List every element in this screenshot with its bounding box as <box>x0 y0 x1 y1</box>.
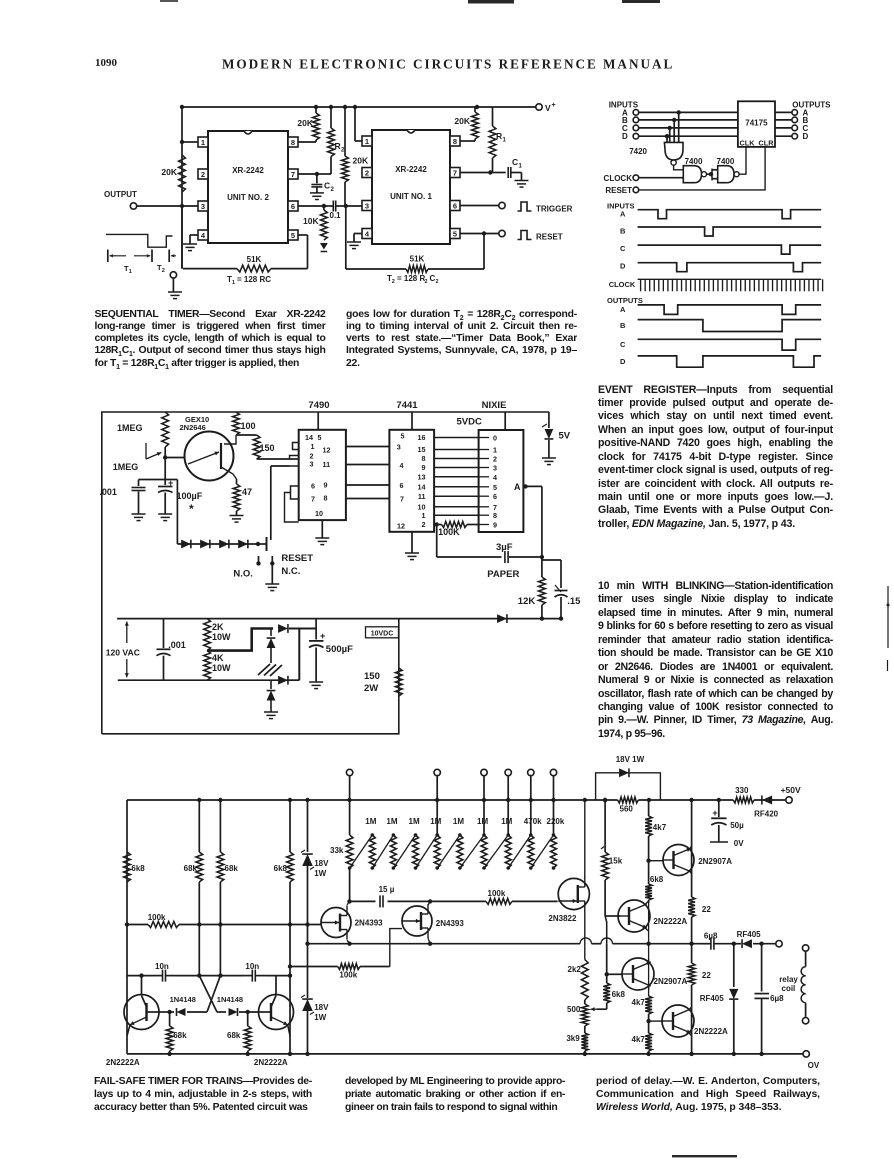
waveform output A <box>620 305 821 315</box>
svg-text:RESET: RESET <box>605 186 632 195</box>
terminal RESET <box>499 230 563 241</box>
svg-text:8: 8 <box>291 138 295 147</box>
terminal +50V <box>781 785 801 803</box>
svg-text:5: 5 <box>401 432 405 441</box>
potentiometer 500 <box>567 1000 607 1026</box>
waveform clock comb <box>638 279 823 291</box>
wire CLOCK to gate <box>639 177 684 179</box>
svg-text:.001: .001 <box>168 640 186 650</box>
border supply box right + bottom <box>102 619 399 734</box>
node selector rail dots <box>435 798 556 802</box>
wire nixie supply stub <box>504 412 506 430</box>
wire 10VDC output rail <box>117 618 561 620</box>
pin 3 U1 <box>346 201 372 211</box>
node 33k jfet drain <box>347 899 352 944</box>
resistor 6k8 b <box>274 800 294 882</box>
svg-text:3k9: 3k9 <box>566 1034 580 1043</box>
svg-text:1N4148: 1N4148 <box>217 995 243 1004</box>
svg-text:470k: 470k <box>524 817 542 826</box>
svg-text:A: A <box>620 305 626 314</box>
relay coil <box>779 945 809 1024</box>
resistor 6k8 a <box>124 852 146 882</box>
svg-text:C: C <box>324 181 330 191</box>
svg-text:1090: 1090 <box>95 57 118 69</box>
diode RF405 series <box>732 930 776 948</box>
svg-text:15: 15 <box>418 445 426 454</box>
svg-text:2N2907A: 2N2907A <box>698 857 732 866</box>
svg-text:.001: .001 <box>99 487 117 497</box>
terminal output B <box>792 116 809 125</box>
wire nixie anode A <box>523 484 542 557</box>
terminal input B <box>622 116 639 125</box>
svg-text:NIXIE: NIXIE <box>482 400 507 411</box>
label 120 VAC + arrows <box>106 622 140 678</box>
capacitor .001 line filter <box>157 619 186 681</box>
diode rectifier bottom <box>278 676 299 685</box>
svg-text:3: 3 <box>310 460 314 469</box>
wire 7441 supply stub <box>411 412 413 430</box>
label N.C. <box>281 566 300 577</box>
svg-text:CLOCK: CLOCK <box>604 174 633 183</box>
waveform input B <box>620 227 821 237</box>
hatch symbol <box>258 664 282 676</box>
svg-text:13: 13 <box>418 472 426 481</box>
counter U7 7490 body <box>299 430 346 520</box>
wire 7490 pin9 to 7441 pin6 <box>346 484 390 486</box>
svg-text:10: 10 <box>315 509 323 518</box>
svg-text:7420: 7420 <box>629 147 647 156</box>
pin 6 U2 <box>288 201 329 211</box>
waveform input D <box>620 262 821 272</box>
terminal V+ <box>536 102 556 113</box>
label 5VDC <box>457 417 482 428</box>
svg-text:+: + <box>712 808 717 818</box>
resistor 4k7 bottom <box>632 1021 652 1056</box>
zener 18V 1W upper <box>301 800 329 925</box>
svg-text:1: 1 <box>365 137 369 146</box>
svg-text:C: C <box>512 157 518 167</box>
logic gate U3 7420 four-input NAND <box>629 142 683 165</box>
op-amp U1 XR-2242 UNIT NO. 1 body <box>372 130 450 244</box>
svg-text:A: A <box>620 210 626 219</box>
wire input D line <box>639 135 738 137</box>
wire 100k gate line to 2N3822 <box>430 889 557 904</box>
svg-text:2N2907A: 2N2907A <box>654 977 688 986</box>
resistor chain 1M x7 470k 220k <box>348 800 557 870</box>
wire cross coupling diagonals <box>199 976 220 1012</box>
diode clamp upper <box>267 629 276 664</box>
wire input C line <box>639 127 738 129</box>
wire RESET to CLR <box>639 147 765 190</box>
svg-text:RF405: RF405 <box>737 930 762 939</box>
svg-text:20K: 20K <box>353 156 369 166</box>
svg-text:330: 330 <box>735 786 749 795</box>
svg-text:5: 5 <box>318 433 322 442</box>
svg-text:100K: 100K <box>438 527 460 537</box>
svg-text:68k: 68k <box>184 864 198 873</box>
svg-text:2N2222A: 2N2222A <box>254 1058 288 1067</box>
terminal input A <box>622 108 639 117</box>
wire right mid vertical <box>648 944 650 996</box>
svg-text:16: 16 <box>418 433 426 442</box>
svg-text:1: 1 <box>422 511 426 520</box>
resistor 100K anode <box>434 522 479 538</box>
svg-text:1M: 1M <box>409 817 420 826</box>
pin 7 U1 <box>450 168 490 178</box>
svg-text:XR-2242: XR-2242 <box>395 165 427 174</box>
svg-text:68k: 68k <box>227 1031 241 1040</box>
svg-text:1M: 1M <box>365 817 376 826</box>
svg-text:OUTPUTS: OUTPUTS <box>607 296 643 305</box>
terminal RESET (logic) <box>605 186 638 195</box>
svg-text:relay: relay <box>779 975 798 984</box>
svg-text:20K: 20K <box>297 118 313 128</box>
wire 15k to Q7 base <box>605 915 620 917</box>
wire to diode string <box>176 480 178 545</box>
svg-text:15k: 15k <box>609 857 623 866</box>
wire output D line <box>775 135 792 137</box>
wire 7490 ground stub <box>321 520 323 538</box>
node zener bus crossings <box>167 942 309 1057</box>
svg-text:3: 3 <box>493 464 497 473</box>
ground pin4 U1 <box>347 242 361 249</box>
resistor R1 <box>489 107 506 173</box>
svg-text:3: 3 <box>201 202 205 211</box>
resistor 2k2 <box>568 960 589 1001</box>
resistor 20K rail to pin8 U2 <box>297 107 319 142</box>
wire 7441 ground stub <box>411 532 413 553</box>
logic gate U4 7400 NAND a <box>683 157 706 183</box>
svg-text:0V: 0V <box>734 839 744 848</box>
node rail taps <box>197 798 352 802</box>
terminal input C <box>622 124 639 133</box>
waveform input A <box>620 210 821 219</box>
transistor Q2 2N2222A left <box>124 976 159 1036</box>
diode RF420 <box>754 795 779 818</box>
waveform output pulse sketch <box>106 234 173 247</box>
svg-text:5: 5 <box>291 231 295 240</box>
svg-text:6µ8: 6µ8 <box>770 994 784 1003</box>
diode string D1-D4 1N4001 <box>177 540 258 549</box>
svg-text:2k2: 2k2 <box>568 965 582 974</box>
wire 10n coupling bus <box>127 975 290 977</box>
wire 3uF branch <box>437 525 502 558</box>
svg-text:150: 150 <box>364 671 380 682</box>
svg-text:4k7: 4k7 <box>632 998 646 1007</box>
resistor 330 <box>733 786 754 803</box>
zener diode 5V <box>542 412 571 458</box>
page number 1090 <box>95 57 118 69</box>
svg-text:C: C <box>620 340 626 349</box>
wire 7490 pin12 to 7441 pin3 <box>346 446 390 448</box>
svg-text:2: 2 <box>392 279 395 285</box>
svg-text:V: V <box>545 103 551 113</box>
svg-text:1: 1 <box>201 138 205 147</box>
node taps to 7420 inputs <box>665 110 681 138</box>
label INPUTS (logic) <box>609 101 639 110</box>
terminal output A <box>792 108 809 117</box>
node 7400 interstage dot <box>709 172 713 176</box>
pin stubs 7490 left brackets <box>285 443 299 523</box>
wire cap top bus <box>139 479 178 481</box>
svg-text:PAPER: PAPER <box>487 569 519 580</box>
wire gate return bus2 <box>288 929 402 980</box>
wire 7420 input drops <box>667 112 679 142</box>
svg-text:22: 22 <box>702 905 711 914</box>
svg-text:2: 2 <box>331 187 335 193</box>
logic gate U5 7400 NAND b <box>717 157 740 183</box>
svg-text:150: 150 <box>260 443 275 453</box>
svg-text:18V: 18V <box>314 859 329 868</box>
resistor 1MEG charging <box>117 412 169 447</box>
svg-text:6: 6 <box>453 202 457 211</box>
node coupling bus dots <box>139 973 292 977</box>
svg-text:2N2646: 2N2646 <box>180 423 206 432</box>
resistor 51K U1 timing <box>346 206 484 272</box>
wire 150 to 7490 pin2 <box>257 458 290 460</box>
resistor 560 in rail <box>603 797 651 814</box>
wire output C line <box>775 127 792 129</box>
svg-text:CLK: CLK <box>740 138 756 147</box>
svg-text:2: 2 <box>436 279 439 285</box>
svg-text:5: 5 <box>453 230 457 239</box>
pin 6 U1 <box>450 201 499 211</box>
resistor 6k8 mid <box>603 916 625 1009</box>
resistor 20K rail to pin8 U1 <box>454 107 478 141</box>
svg-text:6: 6 <box>493 492 497 501</box>
label timing CLOCK <box>609 280 636 289</box>
svg-text:*: * <box>189 502 194 516</box>
diode 1N4148 a <box>159 995 207 1016</box>
capacitor 15u <box>379 885 395 907</box>
svg-text:22: 22 <box>702 971 711 980</box>
svg-text:0.1: 0.1 <box>330 211 342 220</box>
svg-text:12K: 12K <box>518 596 536 607</box>
wire Q9 vertical <box>689 798 693 897</box>
svg-text:1: 1 <box>519 164 523 170</box>
scan artifact right edge line <box>887 586 890 671</box>
svg-text:2W: 2W <box>364 683 378 694</box>
pin 3 U2 <box>137 201 208 211</box>
svg-text:15 µ: 15 µ <box>379 885 395 894</box>
svg-text:20K: 20K <box>454 116 470 126</box>
svg-text:RF420: RF420 <box>754 810 779 819</box>
diode rectifier top <box>278 624 316 633</box>
node pin7 C1 junction <box>488 170 492 174</box>
transistor Q7 2N2222A mid <box>618 900 687 944</box>
svg-text:1: 1 <box>232 280 235 286</box>
svg-text:8: 8 <box>493 511 497 520</box>
svg-text:120 VAC: 120 VAC <box>106 648 140 658</box>
capacitor .15 <box>542 560 581 619</box>
ground 500uF <box>309 682 323 689</box>
svg-text:7: 7 <box>400 495 404 504</box>
svg-text:2: 2 <box>422 520 426 529</box>
wire 7490 pin11 to 7441 pin4 <box>346 464 390 466</box>
svg-text:3: 3 <box>397 442 401 451</box>
node pin5 U1 junction <box>482 231 486 235</box>
resistor 10K <box>303 206 327 240</box>
transistor Q4 2N4393 a <box>321 906 383 940</box>
svg-text:MODERN ELECTRONIC CIRCUITS REF: MODERN ELECTRONIC CIRCUITS REFERENCE MAN… <box>222 57 674 72</box>
svg-text:7: 7 <box>291 170 295 179</box>
wire 7490 pin8 to 7441 pin7 <box>346 498 390 500</box>
svg-text:1W: 1W <box>314 1013 326 1022</box>
label T1 = 128 RC <box>227 275 271 286</box>
svg-text:RF405: RF405 <box>700 994 725 1003</box>
wire switch to 7490 pin3 <box>271 465 290 467</box>
svg-text:XR-2242: XR-2242 <box>232 166 264 175</box>
label 7441 IC <box>396 400 418 411</box>
svg-text:N.O.: N.O. <box>233 569 253 580</box>
label T2 <box>157 263 165 274</box>
page title MODERN ELECTRONIC CIRCUITS REFERENCE MANUAL <box>222 57 674 72</box>
svg-text:560: 560 <box>620 805 634 814</box>
svg-text:B: B <box>620 321 626 330</box>
svg-text:2: 2 <box>425 279 428 285</box>
svg-text:47: 47 <box>242 487 252 497</box>
svg-text:74175: 74175 <box>745 119 768 128</box>
terminal OUTPUT <box>104 190 137 209</box>
label timing INPUTS <box>607 202 635 211</box>
svg-text:51K: 51K <box>247 255 262 264</box>
svg-text:coil: coil <box>782 984 796 993</box>
pin 2 U2 <box>198 169 208 179</box>
node chain bottom 220k <box>552 866 556 870</box>
svg-text:8: 8 <box>453 137 457 146</box>
border nixie timer schematic box left/top <box>102 412 549 734</box>
resistor 12K <box>518 557 546 619</box>
nixie tube V1 body <box>479 430 524 532</box>
ground .001 <box>132 514 146 521</box>
capacitor .001 timing <box>99 480 145 515</box>
capacitor 0.1 coupling <box>329 201 346 221</box>
svg-text:68k: 68k <box>225 864 239 873</box>
svg-text:1: 1 <box>311 442 315 451</box>
node 12K cap bottom <box>540 616 564 620</box>
resistor 150 <box>253 435 274 459</box>
wire input B line <box>639 119 738 121</box>
svg-text:68k: 68k <box>173 1031 187 1040</box>
svg-text:6k8: 6k8 <box>131 864 145 873</box>
op-amp U2 XR-2242 UNIT NO. 2 body <box>208 131 288 243</box>
resistor 68k b <box>217 800 238 882</box>
svg-text:20K: 20K <box>161 167 177 177</box>
wire left vertical bus <box>181 107 183 269</box>
wire rect to cap node <box>299 629 316 681</box>
terminal output a <box>776 941 782 947</box>
transistor Q9 2N2907A upper <box>646 845 732 876</box>
svg-text:+: + <box>320 631 326 642</box>
wire pin5 U2 to 51K loop <box>307 235 309 269</box>
node pin1 junction unit2 <box>180 140 184 144</box>
svg-text:1: 1 <box>493 446 497 455</box>
svg-text:1MEG: 1MEG <box>117 423 143 433</box>
terminal 0V bottom <box>803 1051 820 1070</box>
switch RESET pushbutton <box>256 466 274 584</box>
wire UJT b2 to 100 <box>224 435 236 444</box>
zener 18V 1W lower <box>301 925 329 1054</box>
svg-text:4K: 4K <box>212 653 224 663</box>
register U6 74175 body <box>738 101 775 147</box>
svg-text:1M: 1M <box>477 817 488 826</box>
svg-text:1N4148: 1N4148 <box>170 995 196 1004</box>
svg-text:18V 1W: 18V 1W <box>616 755 645 764</box>
label 2N2222A left <box>106 1058 140 1067</box>
svg-text:2N4393: 2N4393 <box>355 919 384 928</box>
wire Q8 base tap <box>607 973 622 975</box>
svg-text:9: 9 <box>422 463 426 472</box>
svg-text:11: 11 <box>418 492 426 501</box>
resistor 22 a <box>688 897 711 944</box>
wire 7490 supply stub <box>317 412 319 430</box>
waveform output C <box>620 339 821 350</box>
scan artifact bottom bar <box>672 1155 737 1157</box>
wire 15u line <box>350 900 431 902</box>
resistor 33k chain <box>330 800 353 901</box>
label N.O. <box>233 569 253 580</box>
diode 1N4148 b <box>217 995 259 1016</box>
wires 7441 to nixie cathodes <box>434 438 479 516</box>
svg-text:8: 8 <box>422 454 426 463</box>
wire V+ supply rail <box>182 106 539 108</box>
svg-text:D: D <box>620 262 626 271</box>
resistor 22 b <box>688 944 711 1056</box>
svg-text:2: 2 <box>162 268 165 274</box>
capacitor 100uF <box>158 478 203 516</box>
resistor 51K U2 timing <box>182 206 308 272</box>
svg-text:OUTPUT: OUTPUT <box>104 190 137 199</box>
svg-text:4: 4 <box>493 473 497 482</box>
capacitor 6u8 shunt <box>755 944 785 1056</box>
svg-text:7: 7 <box>311 495 315 504</box>
svg-text:2N2222A: 2N2222A <box>106 1058 140 1067</box>
svg-text:7441: 7441 <box>396 400 418 411</box>
svg-text:1: 1 <box>129 269 132 275</box>
svg-text:4: 4 <box>400 461 404 470</box>
svg-text:10K: 10K <box>303 216 319 226</box>
wire output B line <box>775 119 792 121</box>
resistor 20K left <box>161 155 185 192</box>
svg-text:1W: 1W <box>314 869 326 878</box>
resistor R2 <box>317 107 345 174</box>
svg-text:1MEG: 1MEG <box>113 462 139 472</box>
wire 7400b out to CLK pin <box>739 147 746 174</box>
ground 7441 <box>405 553 419 560</box>
svg-text:6: 6 <box>400 481 404 490</box>
svg-text:N.C.: N.C. <box>281 566 300 577</box>
waveform input C <box>620 244 821 254</box>
capacitor C1 <box>490 157 522 180</box>
svg-text:7400: 7400 <box>717 157 735 166</box>
svg-text:+: + <box>168 478 173 488</box>
node anode RC junction <box>540 555 544 559</box>
svg-text:18V: 18V <box>314 1003 329 1012</box>
label timing OUTPUTS <box>607 296 643 305</box>
ground zener 5V <box>542 458 556 465</box>
wire source bus <box>308 938 701 944</box>
diode 18V 1W bypass <box>596 755 661 800</box>
resistor 68k a <box>184 800 203 882</box>
decoder U8 7441 body <box>389 430 434 532</box>
svg-text:220k: 220k <box>547 817 565 826</box>
terminal TRIGGER <box>499 202 573 214</box>
terminal input D <box>622 132 639 141</box>
diode output rail <box>497 614 507 623</box>
svg-text:UNIT NO. 2: UNIT NO. 2 <box>227 193 269 202</box>
label 7490 IC <box>308 400 329 411</box>
wire 68k verticals to coupling bus <box>199 882 290 1054</box>
